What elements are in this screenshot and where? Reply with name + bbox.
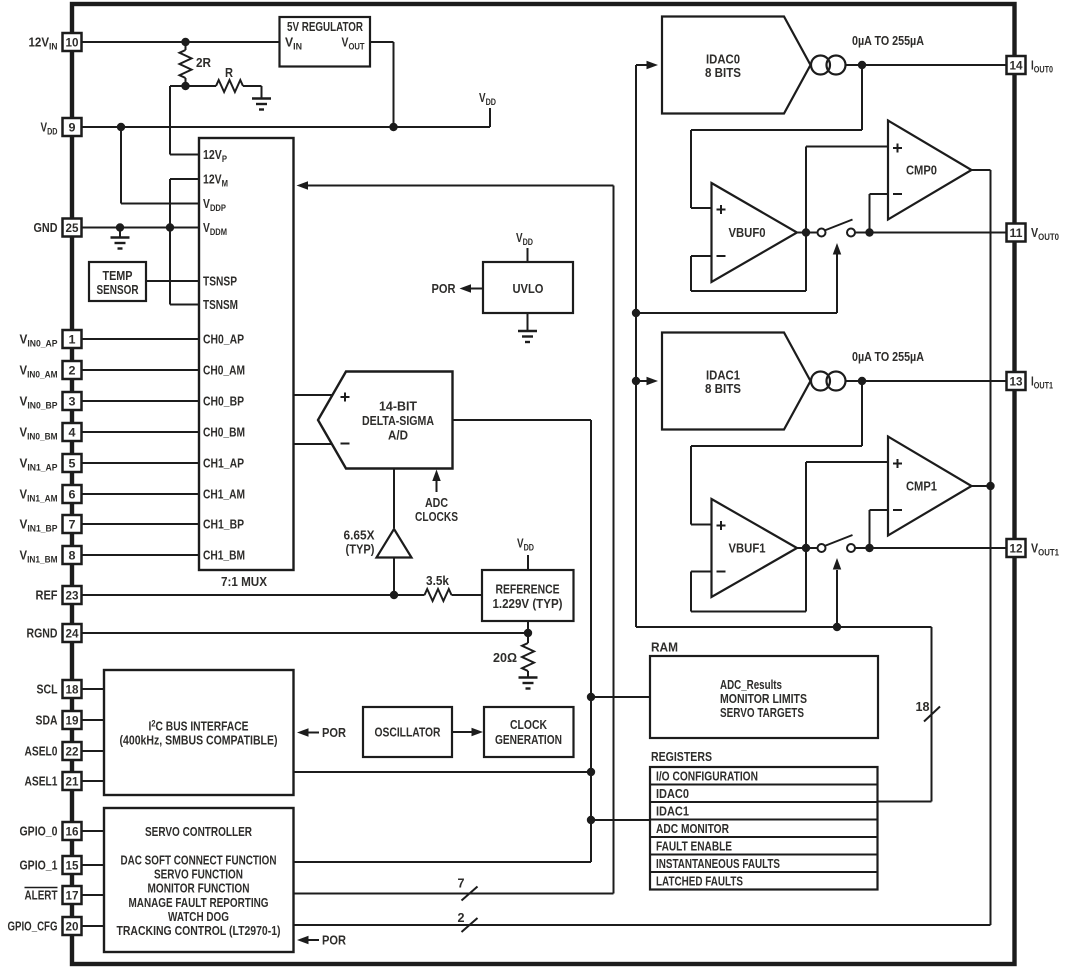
resistor 3.5k <box>425 589 452 601</box>
junction CMP1 output bus <box>986 482 994 490</box>
junction 2R/R/12VP node <box>181 82 189 90</box>
svg-text:19: 19 <box>66 714 79 728</box>
svg-text:1.229V (TYP): 1.229V (TYP) <box>493 596 563 611</box>
wire 6.65X to REF line <box>393 558 395 596</box>
svg-text:17: 17 <box>66 889 79 903</box>
pin 13 <box>1007 372 1026 390</box>
wire VIN pin 3 to mux <box>82 400 199 402</box>
svg-text:10: 10 <box>66 36 79 50</box>
svg-text:POR: POR <box>432 281 457 296</box>
wire divider node to 12VP <box>170 85 186 87</box>
svg-text:12: 12 <box>1010 542 1023 556</box>
svg-text:GENERATION: GENERATION <box>495 732 562 747</box>
svg-text:(400kHz, SMBUS COMPATIBLE): (400kHz, SMBUS COMPATIBLE) <box>120 733 278 748</box>
IDAC1 block <box>662 333 811 430</box>
junction IOUT0/feedback <box>858 61 866 69</box>
junction bus/RAM <box>587 693 595 701</box>
IDAC0 block <box>662 17 811 114</box>
pin 5 <box>63 454 82 472</box>
register row divider 5 <box>650 854 878 856</box>
wire mux select from servo bus <box>301 185 614 187</box>
svg-text:14-BIT: 14-BIT <box>379 399 417 414</box>
svg-text:(TYP): (TYP) <box>346 542 375 557</box>
pin 4 <box>63 423 82 441</box>
wire CMP1 plus feed <box>806 461 888 463</box>
wire R to ground <box>243 85 262 87</box>
wire RGND pin line <box>82 632 528 634</box>
junction VOUT0/CMP0 minus <box>865 228 873 236</box>
wire VIN pin 6 to mux <box>82 493 199 495</box>
RAM box <box>650 656 878 738</box>
wire CMP0 output <box>972 169 991 171</box>
ADC minus sign <box>341 443 350 445</box>
svg-text:DELTA-SIGMA: DELTA-SIGMA <box>362 413 434 428</box>
wire 12VM/VDDM/TSNSM bus <box>169 179 171 305</box>
svg-text:GPIO_0: GPIO_0 <box>20 824 58 839</box>
svg-text:IDAC1: IDAC1 <box>656 803 689 818</box>
svg-text:WATCH DOG: WATCH DOG <box>168 909 229 924</box>
wire ALERT <box>82 894 104 896</box>
svg-text:CMP0: CMP0 <box>906 163 937 178</box>
wire GPIO_CFG <box>82 925 104 927</box>
svg-text:CLOCKS: CLOCKS <box>415 509 458 524</box>
amp 6.65X triangle <box>377 529 412 558</box>
5V regulator box U-reg <box>280 17 371 67</box>
junction VOUT1/CMP1 minus <box>865 544 873 552</box>
svg-text:LATCHED FAULTS: LATCHED FAULTS <box>656 873 743 888</box>
wire UVLO ground stub <box>527 313 529 331</box>
svg-text:CH0_AP: CH0_AP <box>203 332 244 347</box>
svg-text:5: 5 <box>69 457 76 471</box>
svg-text:7: 7 <box>458 876 465 891</box>
svg-text:4: 4 <box>69 426 76 440</box>
svg-text:OSCILLATOR: OSCILLATOR <box>375 725 441 740</box>
svg-text:CMP1: CMP1 <box>906 479 937 494</box>
wire bus to registers <box>591 819 650 821</box>
wire ADC output <box>453 419 592 421</box>
servo controller box <box>104 808 294 952</box>
wire mux to ADC plus <box>294 394 333 396</box>
wire switch0 control <box>636 312 837 314</box>
wire REF pin line <box>82 594 425 596</box>
wire VIN pin 2 to mux <box>82 369 199 371</box>
svg-text:R: R <box>225 65 234 80</box>
wire VIN pin 7 to mux <box>82 523 199 525</box>
opamp VBUF1 <box>712 499 798 597</box>
svg-text:DAC SOFT CONNECT FUNCTION: DAC SOFT CONNECT FUNCTION <box>121 853 277 868</box>
VBUF1 minus <box>717 571 726 573</box>
wire servo to ADC bus <box>294 861 592 863</box>
svg-text:VBUF1: VBUF1 <box>729 541 766 556</box>
registers table frame <box>650 767 878 890</box>
svg-text:GPIO_CFG: GPIO_CFG <box>8 919 58 934</box>
register row divider 3 <box>650 819 878 821</box>
node VDD stub <box>489 108 491 127</box>
svg-text:INSTANTANEOUS FAULTS: INSTANTANEOUS FAULTS <box>656 856 780 871</box>
svg-text:GPIO_1: GPIO_1 <box>20 858 58 873</box>
svg-text:TSNSP: TSNSP <box>203 274 237 289</box>
junction bus/switch0 control <box>632 309 640 317</box>
wire servo 7-bit bus <box>294 893 614 895</box>
svg-text:ADC MONITOR: ADC MONITOR <box>656 821 729 836</box>
wire VDDP drop <box>120 127 122 204</box>
junction RGND/20ohm <box>524 629 532 637</box>
CMP1 minus <box>893 509 902 511</box>
comparator CMP1 <box>888 437 972 536</box>
junction VBUF1 out <box>802 544 810 552</box>
svg-text:6: 6 <box>69 488 76 502</box>
svg-text:CLOCK: CLOCK <box>510 717 547 732</box>
wire reference to RGND line <box>527 621 529 633</box>
svg-text:I/O CONFIGURATION: I/O CONFIGURATION <box>656 768 758 783</box>
wire TSNSM stub <box>170 304 199 306</box>
comparator CMP0 <box>888 121 972 220</box>
svg-text:MONITOR FUNCTION: MONITOR FUNCTION <box>148 881 250 896</box>
wire ADC clocks arrow <box>436 480 438 492</box>
pin 17 <box>63 886 82 904</box>
wire GPIO_1 <box>82 864 104 866</box>
svg-text:7: 7 <box>69 518 76 532</box>
pin 16 <box>63 822 82 840</box>
ADC plus sign <box>341 396 350 398</box>
svg-text:POR: POR <box>322 725 347 740</box>
wire osc to clockgen <box>452 731 477 733</box>
wire bus bottom to 18-bus <box>636 626 932 628</box>
ADC delta-sigma block <box>318 372 453 469</box>
wire VIN pin 5 to mux <box>82 462 199 464</box>
svg-text:POR: POR <box>322 933 347 948</box>
UVLO box <box>483 262 573 313</box>
svg-text:6.65X: 6.65X <box>344 528 375 543</box>
junction VBUF0 out <box>802 228 810 236</box>
pin 7 <box>63 515 82 533</box>
pin 8 <box>63 546 82 564</box>
svg-text:IDAC0: IDAC0 <box>656 786 689 801</box>
junction VOUT/VDD rail <box>389 123 397 131</box>
svg-text:VBUF0: VBUF0 <box>729 225 766 240</box>
svg-text:ASEL0: ASEL0 <box>25 744 58 759</box>
svg-text:18: 18 <box>916 699 930 714</box>
svg-text:25: 25 <box>66 221 79 235</box>
wire IDAC1 to IOUT1 <box>846 380 1007 382</box>
svg-text:2: 2 <box>458 910 465 925</box>
wire VDD stub UVLO <box>527 248 529 262</box>
svg-text:8: 8 <box>69 549 76 563</box>
clock generation box <box>484 707 574 757</box>
wire VIN pin 1 to mux <box>82 338 199 340</box>
svg-text:TSNSM: TSNSM <box>203 297 238 312</box>
svg-text:ASEL1: ASEL1 <box>25 774 58 789</box>
svg-text:A/D: A/D <box>388 428 408 443</box>
svg-text:8 BITS: 8 BITS <box>705 65 741 80</box>
VBUF0 plus <box>717 209 726 211</box>
wire IDAC1 feedback down <box>861 381 863 446</box>
slash 7-bit <box>462 887 478 901</box>
wire VBUF0 out <box>797 232 818 234</box>
wire ADC to 6.65X amp <box>393 469 395 529</box>
svg-text:2: 2 <box>69 364 76 378</box>
svg-text:CH1_BM: CH1_BM <box>203 548 245 563</box>
slash 2-bit <box>462 918 478 932</box>
svg-text:GND: GND <box>34 220 58 235</box>
opamp VBUF0 <box>712 183 798 282</box>
svg-text:RGND: RGND <box>27 626 58 641</box>
wire CMP1 minus feedback <box>870 509 889 511</box>
arrowhead into mux <box>297 181 309 190</box>
svg-text:ADC_Results: ADC_Results <box>720 677 782 692</box>
wire 12VIN to 5V regulator <box>82 41 280 43</box>
wire POR into I2C <box>308 732 320 734</box>
register row divider 4 <box>650 836 878 838</box>
svg-text:SERVO TARGETS: SERVO TARGETS <box>720 705 804 720</box>
register row divider 1 <box>650 784 878 786</box>
pin 14 <box>1007 56 1026 74</box>
wire bus to IDAC0 arrow <box>636 64 651 66</box>
svg-text:SERVO FUNCTION: SERVO FUNCTION <box>154 867 243 882</box>
ground GND pin <box>119 228 121 238</box>
pin 10 <box>63 33 82 51</box>
ground 20ohm <box>519 676 538 678</box>
svg-text:SDA: SDA <box>36 713 58 728</box>
switch SW1 <box>818 544 826 552</box>
wire bus to RAM <box>591 696 650 698</box>
ground divider <box>252 97 271 99</box>
wire VBUF0 feedback <box>691 255 712 257</box>
pin 2 <box>63 361 82 379</box>
wire IDAC0 to IOUT0 <box>846 64 1007 66</box>
pin 25 <box>63 219 82 237</box>
pin 12 <box>1007 539 1026 557</box>
pin 22 <box>63 742 82 760</box>
wire ASEL1 <box>82 780 104 782</box>
svg-text:1: 1 <box>69 333 76 347</box>
junction VDD/VDDP <box>117 123 125 131</box>
register row divider 2 <box>650 801 878 803</box>
wire ASEL0 <box>82 750 104 752</box>
junction GND/TSNSM bus <box>166 223 174 231</box>
wire CMP0 minus feedback <box>870 193 889 195</box>
svg-text:MANAGE FAULT REPORTING: MANAGE FAULT REPORTING <box>129 895 269 910</box>
pin 23 <box>63 586 82 604</box>
svg-text:20: 20 <box>66 920 79 934</box>
svg-text:REF: REF <box>36 588 58 603</box>
svg-text:3: 3 <box>69 395 76 409</box>
switch SW0 <box>818 229 826 237</box>
svg-text:CH0_BM: CH0_BM <box>203 425 245 440</box>
wire IDAC0 feedback down <box>861 65 863 130</box>
resistor R <box>216 80 243 92</box>
svg-text:23: 23 <box>66 589 79 603</box>
pin 18 <box>63 680 82 698</box>
wire GPIO_0 <box>82 830 104 832</box>
svg-text:13: 13 <box>1010 375 1023 389</box>
svg-text:18: 18 <box>66 683 79 697</box>
I2C interface box <box>104 670 294 795</box>
wire switch1 control <box>836 570 838 627</box>
svg-text:CH1_AM: CH1_AM <box>203 487 245 502</box>
svg-text:5V REGULATOR: 5V REGULATOR <box>287 19 363 34</box>
svg-text:11: 11 <box>1010 226 1023 240</box>
wire CMP1 output <box>972 485 991 487</box>
svg-text:0µA TO 255µA: 0µA TO 255µA <box>852 349 924 364</box>
svg-text:20Ω: 20Ω <box>493 650 517 665</box>
wire VBUF1 feedback <box>691 571 712 573</box>
wire CMP0 plus feed <box>806 146 888 148</box>
svg-text:TRACKING CONTROL (LT2970-1): TRACKING CONTROL (LT2970-1) <box>117 923 281 938</box>
mux box 7:1 <box>199 138 294 570</box>
resistor 20ohm <box>527 633 529 643</box>
wire VIN pin 8 to mux <box>82 554 199 556</box>
svg-text:22: 22 <box>66 745 79 759</box>
svg-text:15: 15 <box>66 859 79 873</box>
wire ADC result bus vertical <box>590 420 592 862</box>
svg-text:16: 16 <box>66 825 79 839</box>
wire POR into servo <box>308 939 320 941</box>
reference box <box>482 570 574 621</box>
wire POR from UVLO <box>470 288 483 290</box>
pin 1 <box>63 330 82 348</box>
wire VIN pin 4 to mux <box>82 431 199 433</box>
pin 24 <box>63 624 82 642</box>
pin 15 <box>63 856 82 874</box>
current source IDAC0 <box>811 56 830 75</box>
svg-text:SERVO CONTROLLER: SERVO CONTROLLER <box>145 824 252 839</box>
pin 21 <box>63 772 82 790</box>
VBUF0 minus <box>717 255 726 257</box>
junction bus/IDAC1 arrow <box>632 377 640 385</box>
current source IDAC1 <box>811 372 830 391</box>
wire divider node to R <box>186 85 217 87</box>
wire 18-bit bus vertical <box>931 627 933 802</box>
wire 12VM stub <box>170 178 199 180</box>
svg-text:21: 21 <box>66 775 79 789</box>
svg-text:0µA TO 255µA: 0µA TO 255µA <box>852 33 924 48</box>
wire SCL <box>82 688 104 690</box>
pin 9 <box>63 118 82 136</box>
wire SW0 to VOUT0 <box>855 232 1006 234</box>
pin 20 <box>63 917 82 935</box>
wire IDAC select bus <box>635 65 637 627</box>
junction bus/I2C <box>587 768 595 776</box>
resistor 2R <box>180 50 192 78</box>
pin 19 <box>63 711 82 729</box>
svg-text:UVLO: UVLO <box>513 281 544 296</box>
CMP0 plus <box>893 147 902 149</box>
junction IOUT1/feedback <box>858 377 866 385</box>
pin 3 <box>63 392 82 410</box>
ground UVLO <box>518 330 537 332</box>
temp sensor box <box>89 262 146 301</box>
wire SDA <box>82 719 104 721</box>
wire servo 2-bit bus <box>294 924 991 926</box>
wire I2C to RAM bus <box>294 771 592 773</box>
svg-text:CH0_AM: CH0_AM <box>203 363 245 378</box>
svg-text:ALERT: ALERT <box>25 888 58 903</box>
junction GND/ground symbol <box>116 223 124 231</box>
svg-text:8 BITS: 8 BITS <box>705 381 741 396</box>
svg-text:9: 9 <box>69 121 76 135</box>
CMP1 plus <box>893 463 902 465</box>
oscillator box <box>363 707 452 757</box>
svg-text:SENSOR: SENSOR <box>97 282 139 297</box>
slash 18-bit <box>924 707 940 722</box>
wire bus to IDAC1 arrow <box>636 380 651 382</box>
svg-text:RAM: RAM <box>651 640 678 655</box>
CMP0 minus <box>893 193 902 195</box>
junction bus/registers <box>587 816 595 824</box>
svg-text:CH1_BP: CH1_BP <box>203 517 244 532</box>
wire VBUF1 out <box>797 547 818 549</box>
svg-text:SCL: SCL <box>37 682 58 697</box>
wire mux to ADC minus <box>294 443 332 445</box>
wire VDD stub reference <box>527 555 529 570</box>
svg-text:ADC: ADC <box>425 495 448 510</box>
VBUF1 plus <box>717 525 726 527</box>
svg-text:TEMP: TEMP <box>103 268 133 283</box>
svg-text:FAULT ENABLE: FAULT ENABLE <box>656 838 732 853</box>
wire SW1 to VOUT1 <box>855 547 1006 549</box>
junction REF/6.65X <box>390 591 398 599</box>
wire TSNSP <box>146 280 199 282</box>
svg-text:2R: 2R <box>196 55 212 70</box>
pin 11 <box>1007 224 1026 242</box>
wire GND to VDDM <box>82 227 199 229</box>
svg-text:REGISTERS: REGISTERS <box>651 749 712 764</box>
junction 18bus/switch1 control <box>833 623 841 631</box>
register row divider 6 <box>650 871 878 873</box>
junction 12VIN/2R <box>181 38 189 46</box>
svg-text:CH0_BP: CH0_BP <box>203 394 244 409</box>
svg-text:CH1_AP: CH1_AP <box>203 456 244 471</box>
svg-text:REFERENCE: REFERENCE <box>496 582 560 597</box>
svg-text:3.5k: 3.5k <box>426 573 450 588</box>
pin 6 <box>63 485 82 503</box>
svg-text:14: 14 <box>1010 59 1023 73</box>
svg-text:7:1 MUX: 7:1 MUX <box>221 574 267 589</box>
svg-text:MONITOR LIMITS: MONITOR LIMITS <box>720 691 807 706</box>
svg-text:24: 24 <box>66 627 79 641</box>
svg-text:I2C BUS INTERFACE: I2C BUS INTERFACE <box>149 719 249 734</box>
wire VDD rail <box>82 126 490 128</box>
wire 3.5k to reference box <box>452 594 483 596</box>
wire VOUT to VDD rail <box>370 41 394 43</box>
